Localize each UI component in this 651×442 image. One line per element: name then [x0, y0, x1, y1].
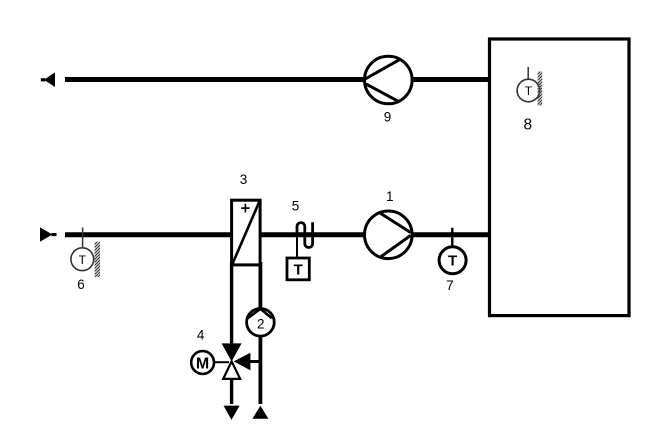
svg-text:7: 7 — [446, 278, 454, 293]
svg-text:T: T — [525, 84, 533, 98]
svg-text:4: 4 — [197, 328, 205, 343]
svg-text:6: 6 — [77, 277, 85, 292]
svg-text:3: 3 — [240, 172, 248, 187]
svg-text:9: 9 — [384, 110, 392, 125]
svg-text:8: 8 — [523, 117, 532, 134]
svg-text:M: M — [196, 355, 209, 372]
svg-text:T: T — [79, 253, 87, 267]
svg-text:1: 1 — [386, 189, 394, 204]
svg-text:T: T — [448, 253, 457, 270]
svg-text:T: T — [294, 261, 303, 278]
svg-text:5: 5 — [292, 199, 300, 214]
svg-text:2: 2 — [257, 317, 265, 332]
